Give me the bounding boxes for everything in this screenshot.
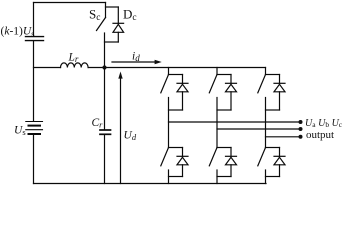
diode D4 lower leg1 xyxy=(169,148,189,177)
wire left vertical mid segment xyxy=(33,41,35,121)
svg-text:output: output xyxy=(306,129,334,141)
svg-text:(k-1)Us: (k-1)Us xyxy=(1,26,35,39)
wire left vertical top segment xyxy=(33,3,35,37)
wire phase C output xyxy=(266,136,301,138)
svg-text:Dc: Dc xyxy=(123,7,137,24)
transistor Q4 lower leg1 switch xyxy=(161,148,183,184)
capacitor (k-1)Us plate bottom xyxy=(26,40,44,42)
svg-text:id: id xyxy=(132,51,140,64)
wire left vertical bottom segment xyxy=(33,135,35,184)
svg-text:Sc: Sc xyxy=(89,7,100,24)
capacitor (k-1)Us plate top xyxy=(26,36,44,38)
wire mid rail right of inductor xyxy=(88,67,265,69)
diode D3 upper leg2 xyxy=(217,75,237,111)
diode Dc xyxy=(105,7,124,42)
transistor Q3 upper leg2 switch xyxy=(209,68,231,148)
capacitor Cr xyxy=(100,130,111,134)
wire below Cr xyxy=(104,135,106,184)
node phase C terminal xyxy=(299,135,303,139)
diode D2 lower leg3 xyxy=(266,148,286,177)
node phase B terminal xyxy=(299,127,303,131)
node main dc-link junction xyxy=(102,65,106,69)
wire mid rail left of inductor xyxy=(34,67,61,69)
transistor Q2 lower leg3 switch xyxy=(258,148,280,184)
diode D6 lower leg2 xyxy=(217,148,237,177)
diode D1 upper leg1 xyxy=(169,75,189,111)
wire phase B output xyxy=(217,128,300,130)
svg-text:Lr: Lr xyxy=(68,52,79,65)
transistor Q1 upper leg1 switch xyxy=(161,68,183,148)
arrow voltage Ud xyxy=(118,72,122,184)
wire bottom rail xyxy=(34,183,267,185)
transistor Q6 lower leg2 switch xyxy=(209,148,231,184)
node phase A terminal xyxy=(299,120,303,124)
wire center vertical to Cr xyxy=(104,68,106,130)
arrow current id xyxy=(112,60,162,64)
svg-text:Us: Us xyxy=(14,125,26,138)
wire phase A output xyxy=(169,121,301,123)
switch Sc xyxy=(97,3,106,68)
transistor Q5 upper leg3 switch xyxy=(258,68,280,148)
wire top rail xyxy=(34,2,106,4)
svg-text:Ua Ub Uc: Ua Ub Uc xyxy=(305,118,343,129)
svg-text:Ud: Ud xyxy=(124,130,137,142)
inductor Lr xyxy=(61,63,89,68)
svg-text:Cr: Cr xyxy=(92,117,104,129)
battery Us xyxy=(26,122,43,135)
diode D5 upper leg3 xyxy=(266,75,286,111)
